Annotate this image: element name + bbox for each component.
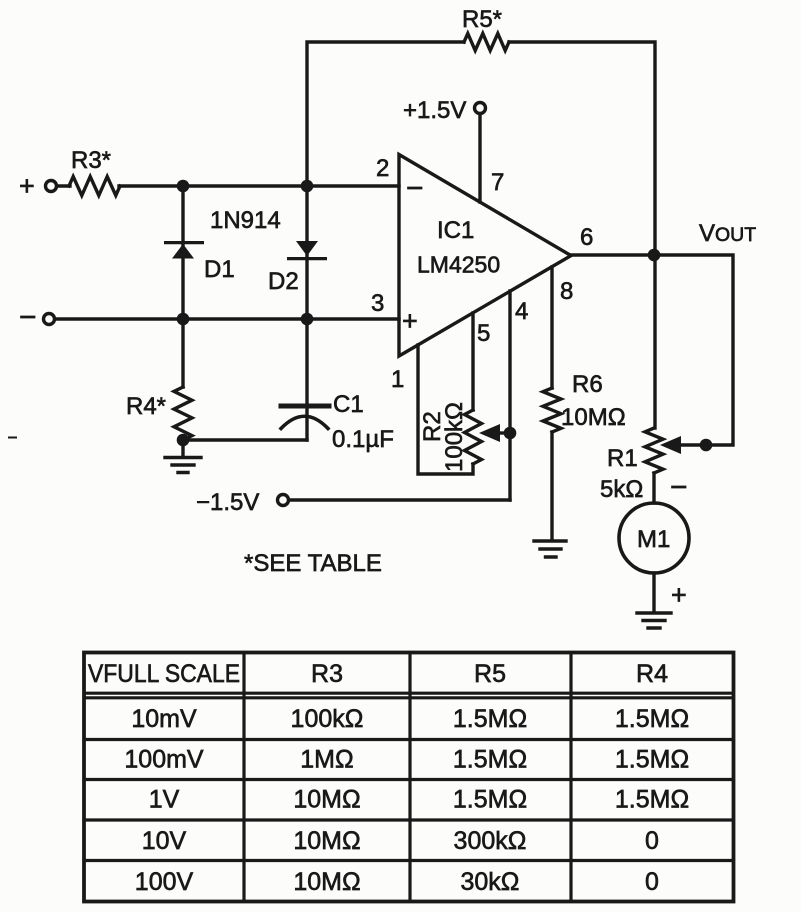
svg-text:0.1µF: 0.1µF [332, 426, 394, 453]
wire pin 6 output [571, 255, 733, 445]
svg-text:8: 8 [560, 278, 573, 305]
wire R4 branch [181, 319, 184, 387]
wire C1 branch [305, 319, 308, 440]
svg-text:R4: R4 [636, 660, 668, 688]
svg-text:R3*: R3* [71, 147, 111, 174]
resistor R5 [464, 34, 509, 51]
svg-text:5kΩ: 5kΩ [600, 476, 643, 503]
svg-text:10MΩ: 10MΩ [561, 404, 626, 431]
svg-text:10mV: 10mV [131, 705, 197, 733]
svg-text:M1: M1 [637, 526, 670, 553]
svg-text:10V: 10V [142, 827, 187, 855]
ground under M1 [637, 613, 671, 628]
svg-text:1: 1 [391, 366, 404, 393]
svg-text:30kΩ: 30kΩ [461, 868, 520, 896]
wire pin 1 bracket [418, 345, 473, 474]
wiper R1 arrowhead [660, 436, 681, 454]
svg-text:1V: 1V [149, 786, 180, 814]
resistor R1 [645, 428, 663, 473]
svg-text:5: 5 [477, 320, 490, 347]
wire M1 to ground [652, 573, 655, 612]
svg-text:R5: R5 [474, 660, 506, 688]
diode D1 symbol [164, 241, 204, 259]
capacitor C1 plate [281, 404, 329, 409]
svg-text:100kΩ: 100kΩ [291, 705, 364, 733]
terminal + input [46, 181, 57, 192]
svg-text:−: − [670, 471, 688, 504]
node junction (183,440) [177, 434, 190, 447]
svg-text:−: − [19, 301, 37, 334]
wire + input to pin 2 [57, 184, 399, 187]
svg-text:100kΩ: 100kΩ [441, 402, 468, 472]
wiper R2 line [498, 431, 510, 434]
svg-text:VFULL SCALE: VFULL SCALE [88, 660, 240, 688]
node junction (183,186) [177, 180, 190, 193]
wire -1.5V rail [289, 498, 510, 501]
table outer border [84, 653, 734, 902]
svg-text:D2: D2 [268, 268, 299, 295]
svg-text:6: 6 [580, 224, 593, 251]
table column line 2 [408, 653, 411, 902]
node junction (654,255) [648, 249, 661, 262]
svg-text:0: 0 [645, 827, 659, 855]
resistor R4 [174, 387, 192, 440]
svg-text:1.5MΩ: 1.5MΩ [615, 705, 689, 733]
svg-text:IC1: IC1 [437, 217, 474, 244]
terminal -1.5V [278, 495, 289, 506]
resistor R3 [69, 177, 120, 196]
svg-text:3: 3 [371, 290, 384, 317]
wire - input to pin 3 [55, 317, 399, 320]
stray scan mark [9, 437, 16, 439]
node junction R1 wiper (706,445) [700, 439, 713, 452]
wire pin 5 [471, 313, 474, 410]
wire R1 branch [653, 255, 656, 428]
diode D1 wire [181, 186, 184, 319]
svg-text:LM4250: LM4250 [417, 252, 500, 278]
ground under R4 [165, 458, 201, 473]
table column line 1 [242, 653, 245, 902]
diode D2 wire [305, 186, 308, 319]
table row line 2 [84, 778, 734, 781]
svg-text:10MΩ: 10MΩ [293, 868, 360, 896]
svg-text:+1.5V: +1.5V [403, 97, 466, 124]
svg-text:300kΩ: 300kΩ [454, 827, 527, 855]
terminal +1.5V [475, 103, 486, 114]
svg-text:100mV: 100mV [124, 746, 204, 774]
svg-text:*SEE TABLE: *SEE TABLE [244, 550, 382, 577]
svg-text:1.5MΩ: 1.5MΩ [453, 705, 527, 733]
svg-text:C1: C1 [333, 391, 364, 418]
svg-text:100V: 100V [135, 868, 194, 896]
capacitor C1 curved plate [281, 416, 328, 428]
node junction (307,186) [301, 180, 314, 193]
svg-text:D1: D1 [204, 256, 235, 283]
wiper R2 arrowhead [479, 424, 500, 442]
resistor R6 [543, 388, 561, 432]
svg-text:2: 2 [376, 155, 389, 182]
wire pin 8 [550, 267, 553, 388]
svg-text:R3: R3 [311, 660, 343, 688]
svg-text:1.5MΩ: 1.5MΩ [453, 746, 527, 774]
svg-text:1.5MΩ: 1.5MΩ [615, 746, 689, 774]
svg-text:1MΩ: 1MΩ [300, 746, 353, 774]
svg-text:+: + [671, 580, 687, 610]
ground under R6 [534, 541, 566, 557]
svg-text:R4*: R4* [126, 393, 166, 420]
svg-text:−: − [406, 172, 424, 205]
table row line 4 [84, 859, 734, 862]
svg-text:1.5MΩ: 1.5MΩ [615, 786, 689, 814]
terminal - input [44, 314, 55, 325]
wire R6 to ground [550, 432, 553, 540]
op-amp IC1 [399, 155, 571, 357]
diode D2 symbol [287, 241, 327, 260]
node junction (307,319) [301, 313, 314, 326]
table header double rule [84, 693, 734, 698]
wire top rail left + left drop [307, 42, 464, 186]
wire pin 4 to -1.5V rail [508, 291, 511, 500]
svg-text:R1: R1 [607, 445, 638, 472]
resistor R2 [465, 410, 482, 464]
wiper R1 line [678, 443, 706, 446]
table row line 1 [84, 738, 734, 741]
svg-text:7: 7 [491, 169, 504, 196]
svg-text:4: 4 [515, 298, 528, 325]
svg-text:1.5MΩ: 1.5MΩ [453, 786, 527, 814]
svg-text:+: + [402, 306, 418, 336]
svg-text:10MΩ: 10MΩ [293, 827, 360, 855]
node junction (183,319) [177, 313, 190, 326]
table row line 3 [84, 818, 734, 821]
svg-text:10MΩ: 10MΩ [293, 786, 360, 814]
wire R1 to meter M1 [652, 473, 655, 503]
svg-text:−1.5V: −1.5V [196, 489, 259, 516]
svg-text:R5*: R5* [462, 6, 502, 33]
table column line 3 [569, 653, 572, 902]
svg-text:VOUT: VOUT [699, 220, 756, 247]
wire top rail right + right drop [509, 42, 655, 255]
meter M1 [619, 503, 689, 573]
svg-text:1N914: 1N914 [210, 207, 281, 234]
wire pin 7 supply [478, 114, 481, 202]
svg-text:R6: R6 [572, 371, 603, 398]
svg-text:0: 0 [645, 868, 659, 896]
svg-text:+: + [19, 171, 35, 201]
node junction R2 wiper (510,433) [504, 427, 517, 440]
wire R4 bottom to C1 bottom [183, 440, 307, 456]
